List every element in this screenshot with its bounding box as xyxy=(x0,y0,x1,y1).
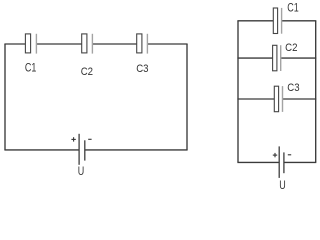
label C3 (parallel) xyxy=(287,81,299,94)
svg-text:C3: C3 xyxy=(287,81,299,94)
svg-text:U: U xyxy=(78,166,84,178)
wire left-circuit left edge xyxy=(4,44,6,150)
wire right-circuit left edge xyxy=(237,21,239,163)
wire right-circuit right edge xyxy=(315,21,317,163)
capacitor C3 (parallel) xyxy=(274,86,282,112)
wire right-circuit bottom segment right xyxy=(284,161,316,163)
wire right-circuit third rail left xyxy=(237,98,274,100)
wire right-circuit bottom segment left xyxy=(237,161,279,163)
plus sign (right battery) xyxy=(273,153,277,157)
label C3 (series) xyxy=(136,62,148,75)
minus sign (left battery) xyxy=(88,138,91,140)
wire left-circuit top segment 4 xyxy=(148,43,188,45)
wire right-circuit top rail left xyxy=(237,20,273,22)
svg-text:C3: C3 xyxy=(136,62,148,75)
label U (left battery) xyxy=(78,166,84,178)
label C2 (series) xyxy=(81,65,93,78)
capacitor C2 (series) xyxy=(82,34,93,54)
wire left-circuit bottom segment right xyxy=(85,149,188,151)
label C1 (series) xyxy=(25,63,37,75)
wire right-circuit middle rail right xyxy=(281,57,316,59)
wire left-circuit top segment 3 xyxy=(93,43,137,45)
svg-text:C1: C1 xyxy=(25,63,37,75)
wire left-circuit top segment 2 xyxy=(37,43,82,45)
wire left-circuit bottom segment left xyxy=(4,149,78,151)
capacitor C3 (series) xyxy=(137,34,148,54)
label C1 (parallel) xyxy=(287,2,299,14)
svg-text:C2: C2 xyxy=(285,41,297,54)
wire left-circuit top segment 1 xyxy=(4,43,25,45)
battery U (left circuit) xyxy=(79,134,85,165)
battery U (right circuit) xyxy=(279,146,284,178)
wire right-circuit top rail right xyxy=(282,20,316,22)
wire left-circuit right edge xyxy=(186,44,188,150)
capacitor C2 (parallel) xyxy=(273,45,281,71)
capacitor C1 (parallel) xyxy=(273,8,281,34)
wire right-circuit middle rail left xyxy=(237,57,272,59)
plus sign (left battery) xyxy=(71,137,75,141)
svg-text:C1: C1 xyxy=(287,2,299,14)
capacitor C1 (series) xyxy=(25,34,36,54)
wire right-circuit third rail right xyxy=(283,98,316,100)
svg-text:C2: C2 xyxy=(81,65,93,78)
svg-text:U: U xyxy=(279,180,285,192)
label C2 (parallel) xyxy=(285,41,297,54)
label U (right battery) xyxy=(279,180,285,192)
minus sign (right battery) xyxy=(288,154,291,156)
